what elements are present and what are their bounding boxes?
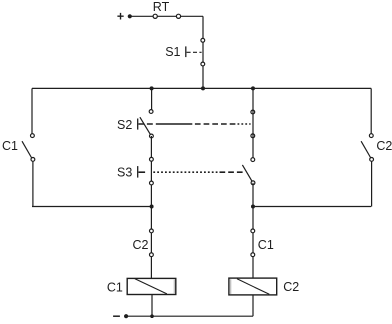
coil C1 [127,278,176,294]
terminal dot at plus [128,14,132,18]
wire: left branch lower [32,161,34,207]
wire: coil C2 bottom lead [252,295,254,316]
label S1 [165,45,180,59]
junction node on bottom line [150,314,154,318]
label C1 (coil) [107,280,123,294]
wire: right middle drop through S2 down to S3 top [252,88,254,157]
junction node lower-right bus [251,205,255,209]
contact S3 left (closed) [150,157,154,185]
svg-text:S2: S2 [117,118,132,132]
svg-text:C1: C1 [2,139,18,153]
junction node on top bus (center feed) [201,86,205,90]
wire: right middle below S3 [252,183,254,278]
svg-text:RT: RT [153,0,170,14]
label C1 (left contact) [2,139,18,153]
junction node on top bus (left middle) [150,86,154,90]
wire: left middle drop from top bus [151,88,153,109]
interlock contact C1 (right, closed) [251,229,255,257]
minus terminal [113,315,120,317]
wire: coil C1 bottom lead [151,295,153,317]
actuator bar S2 [137,119,139,130]
contact S2 left (open blade) [140,110,153,138]
terminal dot at minus [124,314,128,318]
label S2 [117,118,132,132]
wire: right branch upper [370,88,372,133]
wire: left branch upper [31,88,33,133]
wire: left middle between S2 and S3 (closed S3 passes through) [150,136,152,278]
label C2 (interlock) [133,238,149,252]
wire: bottom line [126,315,253,317]
svg-text:+: + [117,9,124,23]
contact C1 (left, open) [22,134,35,162]
coil C2 [229,278,277,295]
wire: lower-left bus [32,206,152,208]
junction node lower-left bus [150,205,154,209]
svg-text:S3: S3 [117,165,132,179]
contact S3 right (open blade) [242,158,255,185]
contact C2 (right, open) [361,134,373,162]
wire: top bus [32,87,371,89]
actuator bar S3 [137,166,139,178]
svg-text:C2: C2 [133,238,149,252]
interlock contact C2 (left, closed) [150,229,154,257]
label C1 (interlock) [258,238,274,252]
svg-text:C1: C1 [258,238,274,252]
wire: vertical main feed down to top bus [202,16,204,88]
svg-text:S1: S1 [165,45,180,59]
label S3 [117,165,132,179]
label C2 (right contact) [376,139,392,153]
mechanical link S2 (dashed) [139,123,251,125]
wire: top feed from plus terminal to corner [130,15,203,17]
svg-text:C2: C2 [283,280,299,294]
junction node on top bus (right middle) [251,86,255,90]
contact S2 right (closed) [251,110,255,138]
svg-text:C1: C1 [107,280,123,294]
svg-text:C2: C2 [376,139,392,153]
plus terminal [117,9,124,23]
switch S1 (closed pushbutton on main feed) [186,38,205,66]
wire: lower-right bus [253,206,371,208]
wire: right branch lower [371,161,373,207]
resistor RT terminals [153,14,157,18]
mechanical link S3 (dotted) [139,171,245,173]
label RT [153,0,170,14]
label C2 (coil) [283,280,299,294]
